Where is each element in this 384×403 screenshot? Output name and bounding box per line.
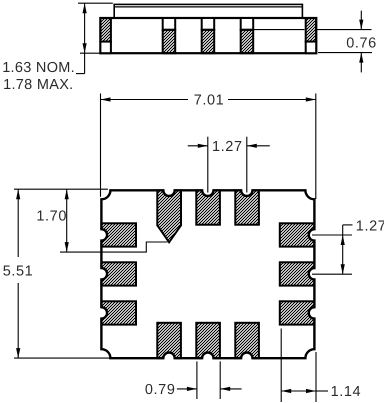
lid [114,4,302,18]
svg-text:7.01: 7.01 [194,93,225,109]
bottom pad column 3 (side view) [241,18,254,53]
dimension 1.27 (top pad pitch) [188,137,270,193]
left pad row2 [101,262,136,285]
dimension 0.79 (bottom pad width) [145,361,242,399]
svg-text:0.79: 0.79 [145,382,176,398]
dimension 5.51 (overall height) [3,189,110,358]
svg-text:1.27: 1.27 [356,219,384,235]
bottom pad column 2 (side view) [202,18,215,53]
right pad row1 [280,223,315,246]
right pad row3 [280,301,315,324]
bottom pad col3 [235,323,259,358]
dimension 1.70 (pin1 pad length) [14,189,168,252]
top pad col3 [235,190,259,224]
svg-text:1.14: 1.14 [331,384,362,400]
dimension 0.76 (pad height, side view) [253,11,377,73]
svg-text:1.78 MAX.: 1.78 MAX. [3,77,73,93]
dimension 1.27 (right pad pitch) [312,219,384,275]
left pad row3 [101,301,136,324]
dimension 7.01 (overall width) [101,93,316,199]
bottom pad col1 [157,323,181,358]
package outline (bottom view) [101,190,314,358]
left end pad (side view) [100,18,111,53]
svg-text:5.51: 5.51 [3,263,34,279]
right end pad (side view) [306,18,317,53]
top pad col2 [196,190,220,224]
left pad row1 [101,223,136,246]
dimension 1.63 NOM / 1.78 MAX (height of side view) [2,3,113,93]
svg-text:1.27: 1.27 [212,139,243,155]
bottom pad column 1 (side view) [163,18,176,53]
dimension 1.14 (corner pad width) [281,329,361,403]
pin-1 pad (pentagon, top-left) [157,190,181,242]
castellation notches (white cutouts) [100,189,317,361]
package body (side view) [100,18,316,53]
svg-text:0.76: 0.76 [346,36,377,52]
right pad row2 [280,262,315,285]
svg-text:1.70: 1.70 [36,209,67,225]
svg-text:1.63 NOM.: 1.63 NOM. [2,60,75,76]
bottom pad col2 [196,323,220,358]
